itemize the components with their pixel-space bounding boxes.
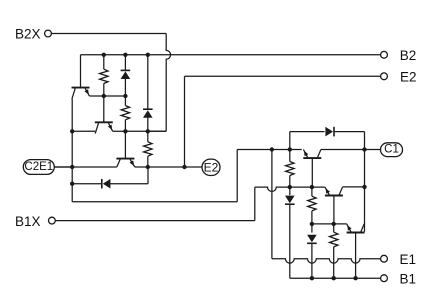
- resistor R5 top lead: [311, 187, 313, 196]
- terminal B2X: [15, 27, 51, 42]
- node Q5 base junction: [332, 222, 336, 226]
- resistor R2 top lead: [124, 96, 126, 106]
- node R1-bus: [102, 53, 106, 57]
- terminal E2: [381, 70, 417, 85]
- wire E2 vertical: [184, 76, 186, 167]
- wire Q1 emitter node line: [89, 95, 125, 97]
- node R4 bottom / D5: [288, 185, 292, 189]
- node C1 junction: [362, 147, 366, 151]
- diode D5: [285, 196, 295, 205]
- wire C2E1 to rail: [54, 166, 72, 168]
- wire Q3 base: [124, 131, 126, 158]
- wire B2X riser with hop over B2 bus: [166, 34, 170, 132]
- wire Q2 collector to rail: [72, 130, 95, 132]
- diode D6: [307, 235, 317, 244]
- wire Q2 base: [103, 96, 105, 122]
- node E2 vertical junction: [182, 165, 186, 169]
- resistor R4: [286, 162, 294, 176]
- terminal C1 oval: [381, 143, 403, 157]
- node D2 anode / R3: [146, 129, 150, 133]
- wire right top bus right: [334, 131, 365, 133]
- wire Q3 collector segment to C2E1: [54, 166, 117, 168]
- resistor R3 bottom lead: [147, 156, 149, 167]
- wire B2X riser to node: [148, 130, 166, 132]
- wire C1 rail upper: [364, 150, 366, 187]
- node Q5 collector on rail: [362, 185, 366, 189]
- resistor R3: [144, 142, 152, 156]
- wire right top bus left: [290, 131, 325, 133]
- wire Q3 emitter segment to E2 oval: [135, 166, 203, 168]
- wire Q6 collector rail stub: [364, 224, 366, 232]
- diode D5 top lead: [289, 187, 291, 195]
- wire C2E1 bottom link: [72, 201, 237, 203]
- wire B1X riser: [254, 187, 256, 221]
- transistor Q3: [116, 159, 134, 167]
- resistor R3 top lead: [147, 131, 149, 142]
- transistor Q2: [95, 122, 113, 133]
- node Q1 emitter / R1: [102, 94, 106, 98]
- terminal B1X: [15, 214, 55, 229]
- node Q6 base on B1: [353, 276, 357, 280]
- node E1-rail / riser: [270, 147, 274, 151]
- diode D2: [143, 109, 153, 118]
- diode D2 bottom lead: [147, 117, 149, 131]
- diode D1 top lead: [124, 55, 126, 71]
- node D2-bus: [146, 53, 150, 57]
- resistor R4 top lead: [289, 150, 291, 162]
- wire freewheel riser: [147, 167, 149, 184]
- wire B1 line from D5: [290, 277, 381, 279]
- terminal E2 oval: [202, 159, 220, 175]
- node R6 on B1: [332, 276, 336, 280]
- svg-text:C2E1: C2E1: [24, 161, 53, 173]
- diode D1 bottom lead: [124, 78, 126, 96]
- resistor R4 bottom lead: [289, 176, 291, 188]
- svg-text:E1: E1: [400, 252, 417, 267]
- wire Q5 collector line: [343, 186, 365, 188]
- wire T4base line with hop over E1 riser: [255, 187, 325, 191]
- transistor Q4: [303, 150, 321, 159]
- wire freewheel line left: [72, 183, 102, 185]
- wire link vertical x237: [236, 150, 238, 202]
- resistor R6 bottom lead: [333, 247, 335, 278]
- wire E1 line with hops: [272, 259, 380, 263]
- node R2 bottom / Q3 base: [123, 129, 127, 133]
- wire Q2 emitter line: [113, 130, 167, 132]
- wire E1-rail line: [272, 149, 302, 151]
- node Q4 base junction: [310, 185, 314, 189]
- transistor Q5: [325, 187, 343, 195]
- resistor R6: [330, 232, 338, 247]
- wire E2 line: [185, 75, 381, 77]
- resistor R2: [121, 106, 129, 120]
- diode D5 bottom lead: [289, 204, 291, 278]
- wire to C1 oval: [365, 149, 381, 151]
- node R3 bottom / E2: [146, 165, 150, 169]
- terminal E1: [381, 252, 416, 267]
- terminal B1: [381, 271, 416, 286]
- diode D6 top lead: [311, 224, 313, 233]
- wire D4 cathode corner: [364, 132, 366, 150]
- diode D3 freewheel: [102, 179, 111, 189]
- wire B1X horizontal: [55, 220, 255, 222]
- resistor R2 bottom lead: [124, 120, 126, 132]
- svg-text:E2: E2: [204, 160, 219, 174]
- wire freewheel line right: [110, 183, 148, 185]
- wire collector rail left: [71, 99, 73, 202]
- diode D6 bottom lead: [311, 243, 313, 278]
- svg-text:C1: C1: [384, 144, 399, 156]
- wire Q4 collector line to C1: [321, 149, 365, 151]
- svg-text:B2X: B2X: [15, 27, 41, 42]
- wire Q4 base: [311, 159, 313, 188]
- terminal C2E1: [23, 160, 54, 175]
- diode D2 top lead: [147, 55, 149, 109]
- node R5 / D6 junction: [310, 222, 314, 226]
- wire D4 anode corner: [289, 132, 291, 150]
- resistor R6 top lead: [333, 224, 335, 232]
- node Q2 collector on rail: [70, 129, 74, 133]
- resistor R1: [100, 69, 108, 83]
- wire E1 riser: [271, 150, 273, 259]
- wire B2 bus: [81, 54, 381, 56]
- node E1-rail / R4: [288, 147, 292, 151]
- terminal B2: [381, 48, 417, 63]
- wire Q5 base: [333, 196, 335, 224]
- resistor R5 bottom lead: [311, 211, 313, 224]
- transistor Q1: [72, 88, 90, 99]
- diode D1: [121, 70, 131, 79]
- svg-text:B1X: B1X: [15, 214, 41, 229]
- resistor R1 top lead: [103, 55, 105, 69]
- svg-text:B2: B2: [400, 48, 417, 63]
- wire C1 rail lower: [364, 187, 366, 224]
- transistor Q6: [347, 224, 365, 233]
- node D1-bus: [123, 53, 127, 57]
- svg-text:B1: B1: [400, 271, 417, 286]
- svg-text:E2: E2: [400, 70, 417, 85]
- resistor R1 bottom lead: [103, 84, 105, 97]
- wire Q1 base from bus corner: [80, 55, 82, 87]
- resistor R5: [308, 196, 316, 211]
- wire link to right block: [237, 149, 272, 151]
- diode D4 freewheel: [325, 127, 334, 137]
- node rail-freewheel: [70, 182, 74, 186]
- node D1 anode / Q2 base: [123, 94, 127, 98]
- node D6 on B1: [310, 276, 314, 280]
- node C2E1 junction on rail: [70, 165, 74, 169]
- wire Q6 base: [355, 233, 357, 278]
- wire B2X horizontal: [51, 33, 166, 35]
- wire T5base line: [312, 223, 347, 225]
